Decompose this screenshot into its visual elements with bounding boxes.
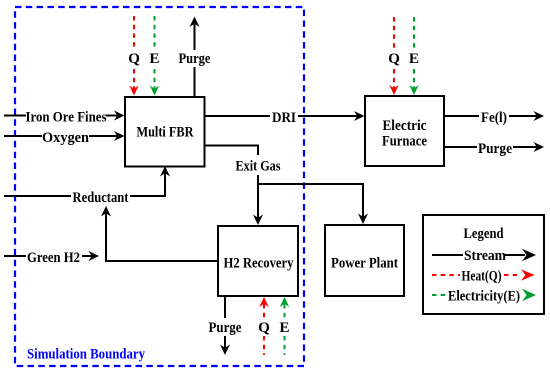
simulation boundary dashed box	[15, 7, 304, 366]
heat Q arrow into H2 Recovery	[259, 297, 268, 355]
svg-text:Q: Q	[258, 319, 270, 336]
svg-text:Electric: Electric	[383, 117, 427, 134]
legend electricity arrow	[432, 289, 536, 301]
block Multi FBR	[125, 97, 205, 167]
svg-text:Green H2: Green H2	[27, 249, 80, 266]
label Exit Gas	[236, 158, 281, 175]
svg-text:E: E	[279, 319, 289, 336]
block H2 Recovery	[218, 226, 298, 296]
svg-text:Fe(l): Fe(l)	[481, 109, 507, 126]
label Purge (Multi FBR)	[179, 50, 211, 67]
heat Q arrow into Multi FBR	[129, 16, 138, 96]
svg-text:Legend: Legend	[464, 225, 504, 242]
wire green h2 input	[4, 251, 99, 261]
label Electricity(E)	[448, 288, 520, 305]
block Electric Furnace	[365, 96, 444, 166]
block Power Plant	[325, 225, 404, 296]
svg-text:Simulation Boundary: Simulation Boundary	[27, 346, 145, 363]
svg-text:Purge: Purge	[478, 140, 512, 157]
label Q (H2 Recovery)	[258, 319, 270, 336]
svg-text:Oxygen: Oxygen	[42, 129, 90, 146]
label Q (Electric Furnace)	[388, 50, 400, 67]
label Iron Ore Fines	[26, 109, 107, 126]
svg-text:H2 Recovery: H2 Recovery	[224, 255, 294, 272]
svg-text:Exit Gas: Exit Gas	[236, 158, 281, 175]
electricity E arrow into Electric Furnace	[409, 17, 418, 95]
label Reductant	[73, 189, 129, 206]
svg-text:E: E	[409, 50, 419, 67]
svg-text:Reductant: Reductant	[73, 189, 129, 206]
label E (Multi FBR)	[149, 50, 159, 67]
wire DRI	[205, 111, 365, 121]
svg-text:Purge: Purge	[179, 50, 211, 67]
electricity E arrow into Multi FBR	[150, 16, 159, 96]
label Oxygen	[42, 129, 90, 146]
label DRI	[272, 109, 296, 126]
svg-text:Multi FBR: Multi FBR	[137, 124, 195, 141]
svg-text:Iron Ore Fines: Iron Ore Fines	[26, 109, 107, 126]
wire Fe(l) output	[444, 111, 544, 121]
label Heat(Q)	[462, 268, 502, 285]
svg-text:Heat(Q): Heat(Q)	[462, 268, 502, 285]
label E (H2 Recovery)	[279, 319, 289, 336]
wire purge from Multi FBR top	[190, 17, 200, 98]
wire exit gas	[205, 145, 368, 225]
electricity E arrow into H2 Recovery	[280, 297, 289, 355]
wire reductant	[4, 166, 170, 197]
label Purge (H2 Recovery)	[209, 319, 242, 336]
label Green H2	[27, 249, 80, 266]
svg-text:E: E	[149, 50, 159, 67]
label E (Electric Furnace)	[409, 50, 419, 67]
svg-text:Q: Q	[128, 50, 140, 67]
wire oxygen	[4, 131, 125, 141]
svg-text:Power Plant: Power Plant	[331, 255, 398, 272]
wire h2 recycle to reductant	[101, 206, 218, 262]
svg-text:Q: Q	[388, 50, 400, 67]
legend stream arrow	[432, 249, 536, 261]
label Fe(l)	[481, 109, 507, 126]
label Stream	[464, 247, 506, 264]
svg-text:Purge: Purge	[209, 319, 242, 336]
svg-text:Furnace: Furnace	[382, 133, 427, 150]
label Simulation Boundary	[27, 346, 145, 363]
heat Q arrow into Electric Furnace	[389, 17, 398, 95]
wire purge from H2 Recovery bottom	[220, 296, 230, 355]
wire purge output of Electric Furnace	[444, 142, 544, 152]
svg-text:Stream: Stream	[464, 247, 506, 264]
svg-text:DRI: DRI	[272, 109, 296, 126]
legend heat arrow	[432, 269, 535, 281]
legend box	[423, 215, 544, 314]
label Legend title	[464, 225, 504, 242]
label Q (Multi FBR)	[128, 50, 140, 67]
wire iron ore fines	[4, 111, 125, 121]
svg-text:Electricity(E): Electricity(E)	[448, 288, 520, 305]
label Purge (Electric Furnace)	[478, 140, 512, 157]
